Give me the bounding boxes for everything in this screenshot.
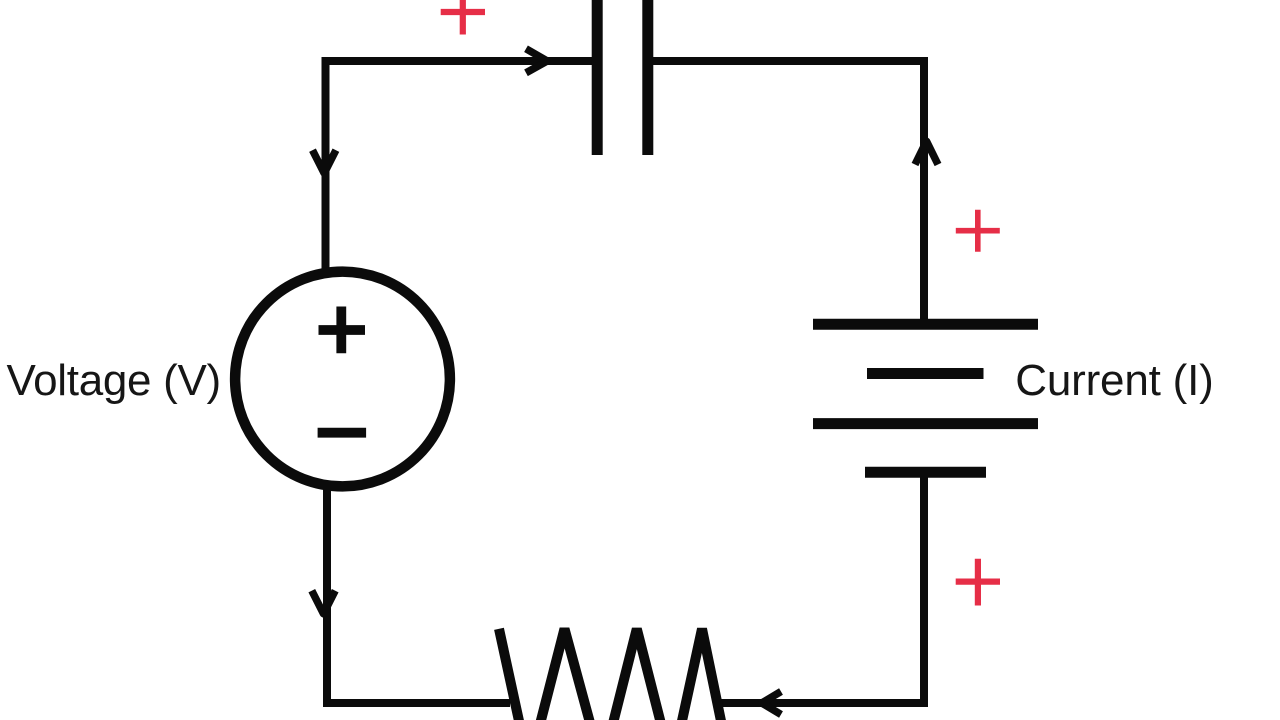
battery B1 short plate 4 (bottom) [865, 467, 986, 478]
voltage source plus sign [319, 307, 366, 354]
svg-text:Voltage (V): Voltage (V) [7, 356, 221, 405]
wire right vertical from battery down with bottom-right horizontal [719, 473, 924, 704]
wire top-right horizontal with right vertical drop to battery [653, 61, 924, 324]
wire left vertical from source down with bottom-left horizontal [327, 486, 510, 703]
wire top-left horizontal with left vertical drop to source [326, 61, 593, 274]
arrow current direction down on left wire [313, 150, 336, 173]
polarity plus mark top (red) [441, 0, 485, 35]
arrow current direction left on bottom wire [762, 692, 781, 715]
voltage source VS circle [235, 272, 450, 487]
capacitor C right plate [642, 0, 653, 155]
battery B1 short plate 2 [867, 368, 984, 379]
battery B1 long plate 3 [813, 418, 1038, 429]
capacitor C left plate [592, 0, 603, 155]
battery B1 long plate 1 (top) [813, 319, 1038, 330]
polarity plus mark upper-right (red) [956, 210, 1000, 252]
arrow current direction right on top wire [526, 49, 547, 73]
polarity plus mark lower-right (red) [956, 559, 1000, 606]
resistor R zigzag [499, 629, 731, 720]
arrow current direction up on right wire [915, 141, 938, 164]
arrow current direction down on lower-left wire [312, 591, 335, 614]
svg-text:Current (I): Current (I) [1015, 356, 1213, 405]
voltage source minus sign [318, 428, 367, 438]
